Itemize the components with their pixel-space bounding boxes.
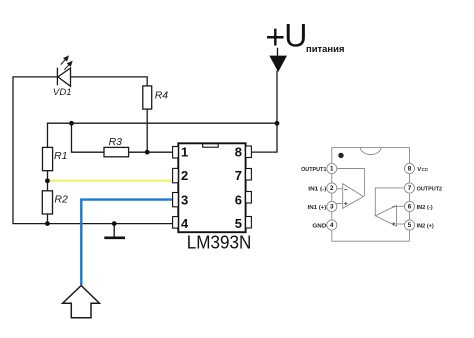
svg-text:8: 8 <box>235 145 242 160</box>
svg-text:GND: GND <box>312 224 326 230</box>
svg-text:4: 4 <box>330 222 334 229</box>
wire LED to R4 top <box>71 77 148 86</box>
blue wire <box>81 200 172 285</box>
resistor R1 <box>43 147 53 170</box>
svg-text:R2: R2 <box>54 193 68 205</box>
svg-text:OUTPUT1: OUTPUT1 <box>301 167 327 173</box>
svg-text:+: + <box>392 221 396 228</box>
junction R2-bottom <box>45 221 50 226</box>
pinout pin 1 circle <box>327 163 337 173</box>
pinout pin 3 circle <box>327 201 337 211</box>
opamp B output wire <box>375 188 405 216</box>
wire R3 to pin1 <box>129 151 173 153</box>
wire R4 bottom to node <box>146 109 148 152</box>
opamp A plus stub <box>337 203 343 205</box>
pinout pin 6 circle <box>404 201 414 211</box>
resistor R3 <box>104 147 129 156</box>
wire R3 branch <box>72 123 105 152</box>
svg-text:VD1: VD1 <box>53 87 72 98</box>
pinout pin 2 circle <box>327 183 337 193</box>
svg-text:IN2 (+): IN2 (+) <box>417 224 434 230</box>
junction R4-R3-pin1 <box>145 150 150 155</box>
pin 6 stub <box>246 192 252 204</box>
svg-text:IN1 (-): IN1 (-) <box>308 186 326 192</box>
junction rail-power <box>275 121 280 126</box>
svg-text:U: U <box>284 17 307 53</box>
pinout body <box>332 148 410 242</box>
svg-text:CC: CC <box>422 167 429 172</box>
svg-text:IN2 (-): IN2 (-) <box>417 205 433 211</box>
op-amp U1 LM393N body <box>178 143 245 232</box>
pinout pin 7 circle <box>404 183 414 193</box>
svg-text:LM393N: LM393N <box>187 233 252 253</box>
resistor R4 <box>143 86 152 109</box>
svg-text:4: 4 <box>181 216 189 231</box>
svg-text:–: – <box>392 204 396 211</box>
resistor R2 <box>42 191 52 214</box>
svg-text:7: 7 <box>235 168 242 183</box>
opamp B triangle <box>375 206 396 227</box>
svg-text:1: 1 <box>330 166 334 173</box>
wire power rail to pin8 <box>251 71 277 153</box>
wire left loop <box>13 77 57 224</box>
svg-text:+: + <box>344 201 348 208</box>
pin 3 stub <box>173 193 179 207</box>
svg-text:7: 7 <box>408 185 412 192</box>
svg-text:питания: питания <box>306 44 345 54</box>
pin 7 stub <box>246 169 252 181</box>
opamp B plus stub <box>397 223 405 225</box>
svg-text:+: + <box>265 19 285 57</box>
svg-text:6: 6 <box>408 204 412 211</box>
svg-text:3: 3 <box>181 193 188 208</box>
svg-text:2: 2 <box>330 185 334 192</box>
junction R1-R2 <box>45 178 50 183</box>
junction rail-R3 <box>69 121 74 126</box>
opamp A output wire <box>337 169 365 197</box>
opamp B minus stub <box>397 205 405 207</box>
ground <box>104 224 125 238</box>
power triangle <box>270 56 286 71</box>
svg-text:3: 3 <box>330 204 334 211</box>
pin 2 stub <box>173 168 179 182</box>
IC notch <box>203 144 219 147</box>
wire R1 bottom <box>47 171 49 191</box>
pin 8 stub <box>246 146 252 158</box>
yellow wire <box>47 180 172 182</box>
LED light arrows <box>61 56 72 70</box>
pinout diagram <box>332 148 410 242</box>
svg-text:5: 5 <box>235 216 242 231</box>
svg-text:R1: R1 <box>54 150 67 162</box>
svg-text:R3: R3 <box>109 136 123 148</box>
pin1 marker dot <box>338 153 343 158</box>
pin 4 stub <box>173 217 179 229</box>
svg-text:R4: R4 <box>155 90 169 102</box>
wire top rail <box>48 123 278 147</box>
svg-text:6: 6 <box>235 193 242 208</box>
pinout pin 5 circle <box>404 220 414 230</box>
pinout pin 8 circle <box>404 163 414 173</box>
pin 1 stub <box>173 147 179 159</box>
wire bottom rail to pin4 <box>47 223 172 225</box>
svg-text:2: 2 <box>181 168 188 183</box>
junction ground <box>112 221 117 226</box>
svg-text:OUTPUT2: OUTPUT2 <box>417 186 443 192</box>
opamp A minus stub <box>337 188 343 190</box>
svg-text:8: 8 <box>408 166 412 173</box>
pin 5 stub <box>246 217 252 229</box>
pinout pin 4 circle <box>327 220 337 230</box>
svg-text:IN1 (+): IN1 (+) <box>308 205 327 211</box>
svg-text:5: 5 <box>408 222 412 229</box>
opamp A triangle <box>343 184 364 209</box>
LED VD1 <box>57 68 70 87</box>
wire R2 bottom <box>47 214 49 224</box>
pinout notch <box>360 148 381 155</box>
input arrow <box>63 286 100 318</box>
svg-text:1: 1 <box>181 145 188 160</box>
svg-text:–: – <box>344 186 348 193</box>
